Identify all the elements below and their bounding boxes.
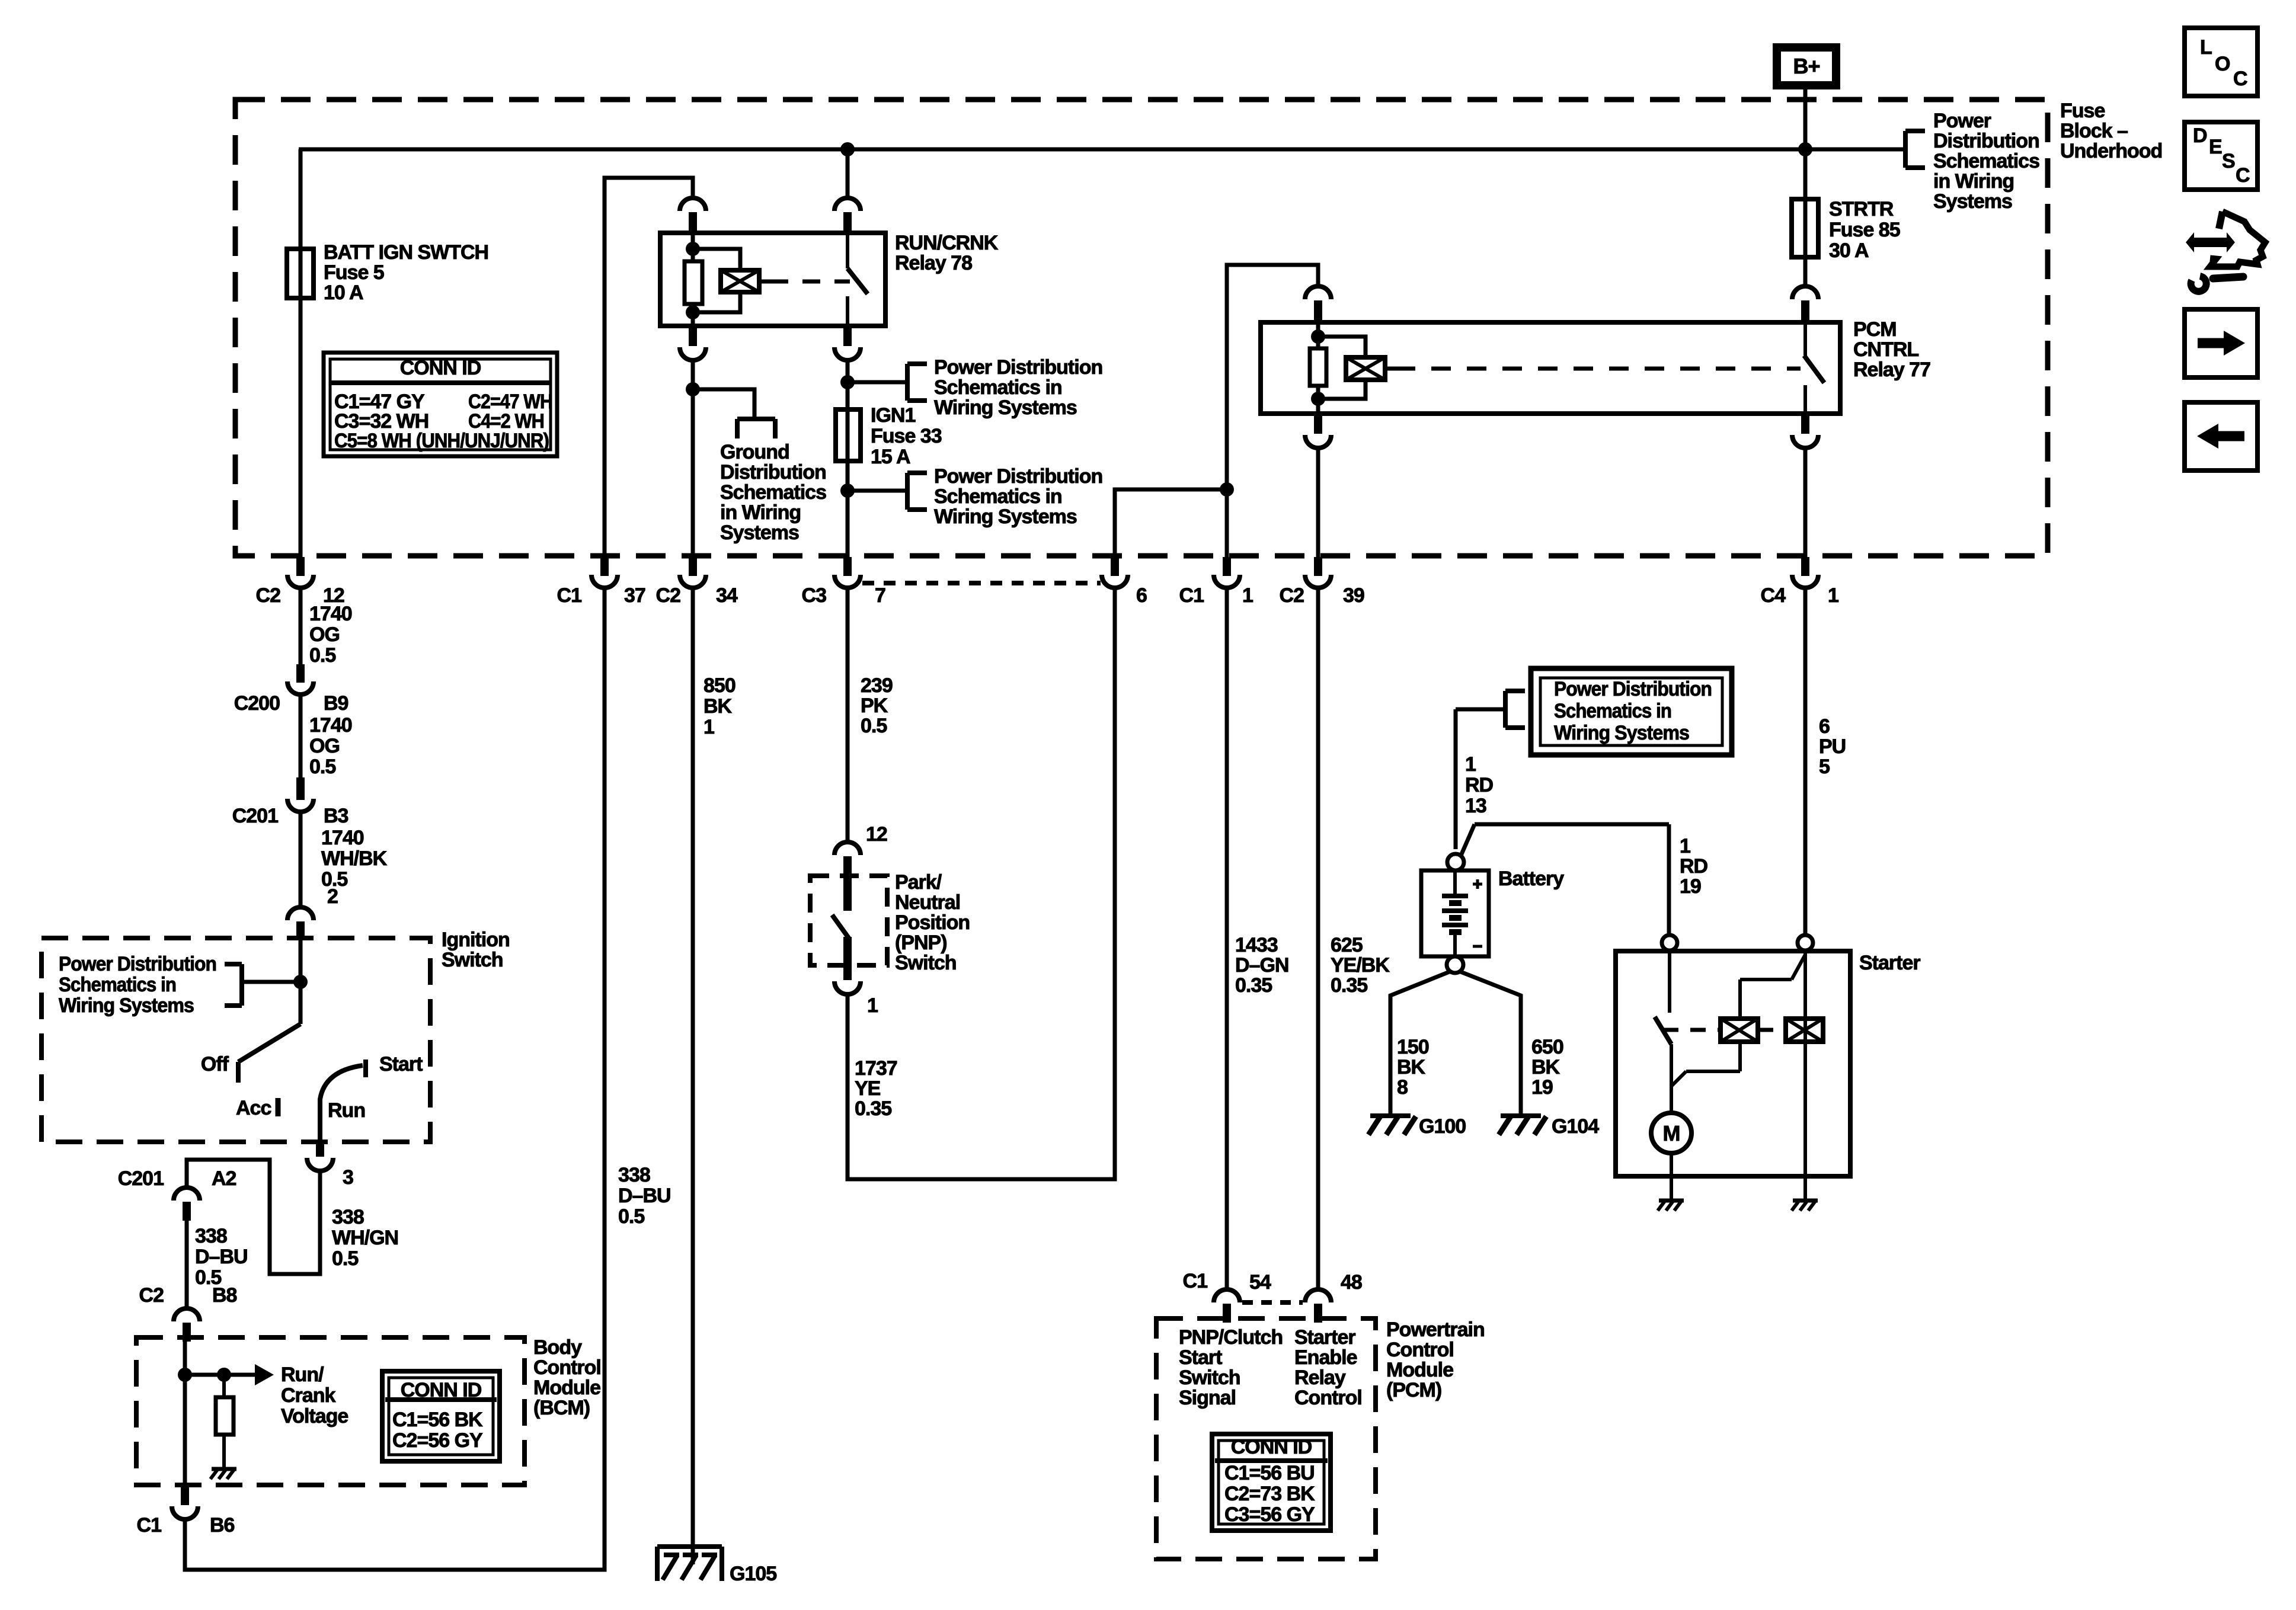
svg-text:30 A: 30 A bbox=[1829, 239, 1869, 262]
wire: B+ to bus and STRTR fuse bbox=[1803, 88, 1808, 286]
svg-text:Switch: Switch bbox=[442, 949, 503, 971]
svg-text:A2: A2 bbox=[212, 1167, 236, 1190]
svg-text:C2: C2 bbox=[1280, 584, 1304, 607]
svg-text:19: 19 bbox=[1680, 875, 1701, 898]
svg-text:M: M bbox=[1663, 1121, 1680, 1145]
svg-text:BK: BK bbox=[1397, 1056, 1426, 1078]
svg-text:C201: C201 bbox=[232, 805, 278, 827]
table CONN ID fuse block bbox=[324, 353, 557, 456]
switch: ignition rotor to Off bbox=[238, 1024, 300, 1083]
svg-text:RUN/CRNK: RUN/CRNK bbox=[895, 232, 999, 254]
icon engine wrench bbox=[2186, 212, 2265, 292]
svg-text:Module: Module bbox=[533, 1377, 600, 1399]
wire: relay 77 coil bottom bbox=[1316, 386, 1320, 412]
svg-text:1740: 1740 bbox=[309, 603, 352, 625]
svg-text:Start: Start bbox=[1179, 1346, 1222, 1369]
svg-text:Fuse 5: Fuse 5 bbox=[324, 261, 384, 284]
svg-text:C1: C1 bbox=[137, 1514, 162, 1537]
labels: fuse block bottom row connectors bbox=[256, 584, 1838, 607]
label Off bbox=[201, 1053, 229, 1076]
wire: battery negative to G100 bbox=[1390, 971, 1451, 1116]
svg-text:D–BU: D–BU bbox=[195, 1246, 248, 1268]
svg-text:650: 650 bbox=[1531, 1036, 1563, 1058]
connector C201 B3 bbox=[232, 777, 348, 827]
svg-text:YE: YE bbox=[855, 1077, 881, 1100]
svg-text:Off: Off bbox=[201, 1053, 229, 1076]
svg-text:338: 338 bbox=[195, 1225, 227, 1247]
svg-text:C201: C201 bbox=[118, 1167, 164, 1190]
label RUN/CRNK Relay 78 bbox=[895, 232, 999, 274]
svg-text:1: 1 bbox=[1680, 835, 1690, 857]
label wire 1737 YE 0.35 bbox=[855, 1057, 897, 1120]
ground: BCM internal bbox=[210, 1469, 236, 1479]
wire: relay 78 switch through IGN1 fuse to C3-7 bbox=[846, 360, 850, 557]
svg-text:D–BU: D–BU bbox=[618, 1185, 671, 1207]
connector cap: PCM C1-54 bbox=[1183, 1270, 1271, 1323]
label BATT IGN SWTCH Fuse 5 10 A bbox=[324, 241, 488, 304]
node: bus / B+ feed bbox=[1798, 142, 1812, 156]
svg-text:PU: PU bbox=[1819, 735, 1846, 758]
svg-text:Power Distribution: Power Distribution bbox=[59, 953, 216, 975]
label wire 1 RD 13 bbox=[1465, 753, 1494, 817]
svg-text:6: 6 bbox=[1136, 584, 1147, 607]
svg-text:0.35: 0.35 bbox=[855, 1097, 891, 1120]
svg-text:C3: C3 bbox=[802, 584, 827, 607]
solenoid: relay 77 coil symbol bbox=[1346, 357, 1396, 380]
wire: BCM internal horizontal bbox=[185, 1373, 255, 1377]
label wire 150 BK 8 bbox=[1397, 1036, 1429, 1099]
wire: C201-A2 to C2-B8 bbox=[185, 1221, 189, 1308]
icon arrow left box bbox=[2185, 402, 2257, 470]
connector cup: relay 77 switch out bbox=[1792, 414, 1818, 448]
solenoid: relay 78 coil symbol bbox=[721, 270, 770, 292]
terminal: battery positive bbox=[1447, 854, 1464, 870]
svg-text:Schematics in: Schematics in bbox=[934, 485, 1062, 508]
svg-text:WH/GN: WH/GN bbox=[332, 1227, 398, 1249]
svg-text:B9: B9 bbox=[324, 692, 348, 715]
relay RUN/CRNK Relay 78 box bbox=[660, 233, 885, 326]
svg-text:Wiring Systems: Wiring Systems bbox=[59, 994, 194, 1017]
svg-text:CONN ID: CONN ID bbox=[401, 1379, 482, 1401]
svg-text:19: 19 bbox=[1531, 1076, 1553, 1099]
svg-text:C: C bbox=[2236, 164, 2250, 187]
connector cup: relay 78 switch out bbox=[834, 326, 861, 360]
svg-text:BK: BK bbox=[703, 695, 733, 718]
svg-text:Fuse: Fuse bbox=[2060, 100, 2105, 122]
node: starter enable branch bbox=[1220, 482, 1234, 497]
connector pins: fuse block bottom row bbox=[287, 557, 1818, 588]
connector cap: relay77 switch input bbox=[1792, 286, 1818, 322]
wire: relay 78 coil bottom bbox=[691, 304, 695, 325]
svg-text:Wiring Systems: Wiring Systems bbox=[1554, 722, 1689, 744]
connector cup: relay 77 coil out bbox=[1305, 414, 1331, 448]
wire: bus to C2-12 through fuse 5 bbox=[299, 149, 303, 557]
ground G104 bbox=[1499, 1116, 1546, 1135]
svg-text:Schematics: Schematics bbox=[720, 481, 826, 504]
svg-text:625: 625 bbox=[1331, 934, 1363, 956]
icon LOC box bbox=[2185, 28, 2257, 96]
fuse STRTR Fuse 85 30A bbox=[1792, 199, 1818, 257]
svg-text:Block –: Block – bbox=[2060, 120, 2128, 142]
svg-text:1: 1 bbox=[703, 716, 714, 738]
svg-text:CONN ID: CONN ID bbox=[400, 357, 481, 379]
mech link: starter dashed bbox=[1663, 1028, 1786, 1032]
svg-text:C2: C2 bbox=[256, 584, 281, 607]
svg-text:338: 338 bbox=[618, 1164, 650, 1186]
ground: starter winding bbox=[1792, 1201, 1818, 1211]
svg-text:Starter: Starter bbox=[1294, 1326, 1355, 1349]
resistor: BCM pull-down bbox=[216, 1375, 234, 1468]
node: relay 77 coil bottom bbox=[1311, 392, 1325, 406]
wire: C1-1 to PCM 54 bbox=[1225, 587, 1229, 1289]
svg-text:0.5: 0.5 bbox=[618, 1205, 644, 1228]
svg-text:Voltage: Voltage bbox=[281, 1405, 348, 1427]
wire: branch to connector 6 bbox=[1115, 489, 1227, 557]
svg-text:0.5: 0.5 bbox=[861, 715, 887, 737]
label G100 bbox=[1419, 1115, 1466, 1138]
label G104 bbox=[1552, 1115, 1599, 1138]
svg-text:Run: Run bbox=[328, 1099, 365, 1122]
wire: tap2 to pointer bbox=[848, 489, 907, 493]
svg-text:Powertrain: Powertrain bbox=[1386, 1318, 1485, 1341]
wire: starter battery feed bbox=[1803, 950, 1807, 1176]
solenoid: starter pull-in winding bbox=[1721, 1019, 1758, 1042]
wire: relay 77 switch to C4-1 bbox=[1803, 448, 1808, 557]
label Starter Enable Relay Control bbox=[1294, 1326, 1362, 1409]
wire: ignition Run to C201-A2 bbox=[187, 1160, 320, 1274]
wire: C2-39 to PCM 48 bbox=[1316, 587, 1320, 1289]
pointer: power distribution (battery) bbox=[1505, 691, 1525, 728]
svg-text:Starter: Starter bbox=[1859, 952, 1920, 974]
svg-text:(PNP): (PNP) bbox=[895, 932, 947, 954]
svg-text:WH/BK: WH/BK bbox=[321, 847, 388, 870]
node: relay 77 coil top bbox=[1311, 329, 1325, 344]
svg-text:C: C bbox=[2233, 68, 2247, 90]
svg-text:Fuse 33: Fuse 33 bbox=[871, 425, 942, 447]
resistor: relay 78 coil bbox=[685, 261, 702, 304]
svg-text:34: 34 bbox=[716, 584, 738, 607]
node: power distribution tap 1 bbox=[840, 375, 855, 389]
wire: starter winding to ground bbox=[1803, 1176, 1807, 1201]
pointer: ground distribution schematics bbox=[737, 419, 775, 438]
switch: starter solenoid contact bbox=[1655, 950, 1671, 1044]
svg-text:1737: 1737 bbox=[855, 1057, 897, 1080]
wire: pointer to battery + bbox=[1454, 709, 1458, 849]
svg-text:CONN ID: CONN ID bbox=[1231, 1436, 1312, 1458]
svg-text:3: 3 bbox=[343, 1166, 353, 1189]
wire: C201 to ignition switch bbox=[299, 812, 303, 908]
pointer: power distribution schematics (top right) bbox=[1905, 131, 1925, 168]
svg-text:239: 239 bbox=[861, 674, 893, 697]
svg-text:Start: Start bbox=[379, 1053, 423, 1076]
svg-text:C1=56 BK: C1=56 BK bbox=[392, 1409, 483, 1431]
label wire 338 D-BU 0.5 (a) bbox=[195, 1225, 248, 1289]
node: bus / RUN CRNK relay 78 bbox=[840, 142, 855, 156]
svg-text:C1=56 BU: C1=56 BU bbox=[1224, 1462, 1315, 1484]
label wire 1 RD 19 bbox=[1680, 835, 1708, 898]
svg-text:C2=73 BK: C2=73 BK bbox=[1224, 1483, 1315, 1505]
svg-text:Control: Control bbox=[1386, 1339, 1454, 1361]
label Ignition Switch bbox=[442, 929, 510, 971]
label power distribution schematics (ignition) bbox=[59, 953, 216, 1017]
label PNP/Clutch Start Switch Signal bbox=[1179, 1326, 1283, 1409]
contact: Acc bbox=[276, 1098, 281, 1116]
svg-text:Power Distribution: Power Distribution bbox=[1554, 678, 1712, 700]
node: BCM tap 1 bbox=[178, 1368, 192, 1382]
svg-text:STRTR: STRTR bbox=[1829, 198, 1894, 220]
connector cap: PNP pin 12 bbox=[834, 823, 887, 877]
svg-text:Ground: Ground bbox=[720, 441, 789, 463]
terminal: starter battery input bbox=[1798, 935, 1813, 950]
svg-text:Park/: Park/ bbox=[895, 871, 942, 894]
connector C1 B6 bbox=[137, 1485, 235, 1537]
svg-text:Power Distribution: Power Distribution bbox=[934, 465, 1102, 488]
svg-text:C1: C1 bbox=[557, 584, 582, 607]
svg-text:PNP/Clutch: PNP/Clutch bbox=[1179, 1326, 1283, 1349]
dotted link: C3 to 6 same connector bbox=[862, 581, 1101, 585]
body control module dashed box bbox=[136, 1337, 525, 1485]
ground: starter motor bbox=[1658, 1201, 1684, 1211]
svg-text:Systems: Systems bbox=[720, 521, 799, 544]
label STRTR Fuse 85 30 A bbox=[1829, 198, 1900, 262]
svg-text:7: 7 bbox=[875, 584, 885, 607]
svg-text:C1: C1 bbox=[1183, 1270, 1208, 1292]
svg-text:Acc: Acc bbox=[236, 1097, 271, 1119]
label wire 1740 WH/BK 0.5 pin 2 bbox=[321, 827, 388, 908]
wire: PNP pin1 to connector 6 bbox=[848, 587, 1115, 1179]
svg-text:Signal: Signal bbox=[1179, 1387, 1236, 1409]
wire: relay 77 solenoid loop bbox=[1318, 337, 1366, 399]
svg-text:1: 1 bbox=[867, 994, 878, 1017]
svg-text:0.35: 0.35 bbox=[1235, 974, 1272, 997]
svg-text:Control: Control bbox=[1294, 1387, 1362, 1409]
ground G100 bbox=[1368, 1116, 1416, 1135]
wire: BCM internal vertical bbox=[183, 1340, 187, 1485]
label wire 338 WH/GN 0.5 bbox=[332, 1206, 398, 1270]
wire: battery + to starter solenoid bbox=[1460, 824, 1669, 934]
mech link: relay 77 dashed bbox=[1396, 367, 1801, 371]
svg-text:B3: B3 bbox=[324, 805, 348, 827]
svg-text:C5=8 WH (UNH/UNJ/UNR): C5=8 WH (UNH/UNJ/UNR) bbox=[334, 430, 549, 452]
svg-text:0.5: 0.5 bbox=[309, 644, 335, 667]
motor M bbox=[1651, 1113, 1691, 1153]
label Run bbox=[328, 1099, 365, 1122]
ignition switch dashed box bbox=[41, 938, 430, 1142]
label power distribution schematics top right bbox=[1933, 110, 2039, 213]
wire: main bus from Fuse 5 to Power Distribution bbox=[299, 148, 1905, 152]
svg-text:Module: Module bbox=[1386, 1359, 1453, 1381]
svg-text:RD: RD bbox=[1465, 774, 1494, 796]
svg-text:C200: C200 bbox=[234, 692, 280, 715]
wire: relay 78 coil to C2-34 bbox=[691, 360, 695, 557]
wire: BCM B6 to C1-37 bbox=[185, 587, 605, 1570]
connector cup: relay 78 coil out bbox=[680, 326, 706, 360]
node: power distribution tap 2 bbox=[840, 484, 855, 498]
wire: ignition feed internal bbox=[299, 939, 303, 1024]
battery box bbox=[1421, 870, 1489, 956]
svg-text:Position: Position bbox=[895, 911, 970, 934]
svg-text:Schematics in: Schematics in bbox=[59, 974, 176, 996]
svg-text:338: 338 bbox=[332, 1206, 364, 1228]
label wire 1740 OG 0.5 (a) bbox=[309, 603, 352, 667]
label ground distribution schematics bbox=[720, 441, 826, 544]
terminal: battery negative bbox=[1447, 956, 1463, 973]
solenoid: starter hold-in winding bbox=[1786, 1019, 1823, 1042]
svg-text:in Wiring: in Wiring bbox=[1933, 170, 2014, 193]
wire: tap1 to pointer bbox=[848, 380, 907, 385]
svg-text:Ignition: Ignition bbox=[442, 929, 510, 951]
node: BCM tap 2 bbox=[217, 1368, 231, 1382]
svg-text:850: 850 bbox=[703, 674, 736, 697]
svg-text:Distribution: Distribution bbox=[1933, 130, 2039, 152]
connector: PNP pin 1 bbox=[834, 965, 878, 1017]
svg-text:IGN1: IGN1 bbox=[871, 404, 915, 427]
svg-text:Enable: Enable bbox=[1294, 1346, 1357, 1369]
svg-text:OG: OG bbox=[309, 735, 340, 757]
svg-text:Power Distribution: Power Distribution bbox=[934, 356, 1102, 379]
resistor: relay 77 coil bbox=[1310, 348, 1326, 386]
label wire 625 YE/BK 0.35 bbox=[1331, 934, 1390, 997]
svg-text:(PCM): (PCM) bbox=[1386, 1379, 1441, 1401]
node: ground distribution tap bbox=[686, 382, 700, 396]
svg-text:39: 39 bbox=[1343, 584, 1364, 607]
svg-text:YE/BK: YE/BK bbox=[1331, 954, 1390, 977]
pointer: power distribution schematics 1 bbox=[907, 364, 927, 401]
pointer: power distribution (ignition) bbox=[225, 964, 242, 1006]
wire: C1-37 up-loop to relay 78 coil bbox=[605, 178, 693, 557]
connector: ignition output pin 3 bbox=[307, 1142, 353, 1189]
svg-text:Schematics in: Schematics in bbox=[934, 376, 1062, 399]
connector cap: relay 78 coil pin bbox=[680, 198, 706, 234]
table CONN ID BCM bbox=[382, 1371, 500, 1461]
svg-text:in Wiring: in Wiring bbox=[720, 501, 801, 524]
pointer: power distribution schematics 2 bbox=[907, 473, 927, 510]
wire: relay 78 coil top bbox=[691, 234, 695, 261]
label Start bbox=[379, 1053, 423, 1076]
switch: relay 77 contact bbox=[1804, 324, 1824, 412]
connector cap: PCM 48 bbox=[1305, 1271, 1362, 1323]
wire: C1-1 up-loop to relay 77 coil bbox=[1227, 265, 1318, 557]
label wire 338 D-BU 0.5 (b) bbox=[618, 1164, 671, 1228]
label Run/Crank Voltage bbox=[281, 1363, 348, 1427]
svg-text:O: O bbox=[2215, 53, 2230, 75]
svg-text:C4=2 WH: C4=2 WH bbox=[468, 410, 544, 433]
svg-text:D–GN: D–GN bbox=[1235, 954, 1288, 977]
svg-text:1740: 1740 bbox=[321, 827, 364, 849]
starter box bbox=[1616, 951, 1850, 1176]
wire: to ground distribution pointer bbox=[693, 389, 754, 419]
connector cap: ignition switch pin 2 bbox=[287, 907, 314, 939]
svg-text:Distribution: Distribution bbox=[720, 461, 826, 484]
svg-text:C2=56 GY: C2=56 GY bbox=[392, 1429, 483, 1452]
label power distribution schematics 1 bbox=[934, 356, 1102, 419]
svg-text:2: 2 bbox=[327, 885, 338, 908]
fuse block underhood dashed box bbox=[235, 100, 2048, 556]
relay PCM CNTRL Relay 77 box bbox=[1261, 322, 1840, 414]
wire: motor to ground bbox=[1670, 1153, 1673, 1201]
svg-text:(BCM): (BCM) bbox=[533, 1397, 590, 1419]
label power distribution schematics 2 bbox=[934, 465, 1102, 528]
box power distribution schematics (battery) bbox=[1531, 668, 1732, 755]
wire: battery negative to G104 bbox=[1459, 971, 1521, 1116]
svg-text:Power: Power bbox=[1933, 110, 1991, 132]
dotted link: PCM C1 connector bbox=[1242, 1300, 1303, 1305]
svg-text:B6: B6 bbox=[210, 1514, 235, 1537]
wire: starter contact to motor bbox=[1670, 1044, 1673, 1113]
svg-text:RD: RD bbox=[1680, 855, 1708, 878]
svg-text:Relay 77: Relay 77 bbox=[1853, 359, 1930, 381]
wire: relay 77 coil to C2-39 bbox=[1316, 448, 1320, 557]
svg-text:D: D bbox=[2193, 124, 2207, 147]
node: relay 78 coil bottom bbox=[686, 305, 700, 319]
svg-text:Switch: Switch bbox=[895, 952, 957, 974]
svg-text:1433: 1433 bbox=[1235, 934, 1278, 956]
label wire 850 BK 1 bbox=[703, 674, 736, 738]
svg-text:1740: 1740 bbox=[309, 714, 352, 737]
svg-text:C2: C2 bbox=[139, 1284, 164, 1307]
svg-text:G100: G100 bbox=[1419, 1115, 1466, 1138]
label Acc bbox=[236, 1097, 271, 1119]
svg-text:C2: C2 bbox=[656, 584, 681, 607]
svg-text:Wiring Systems: Wiring Systems bbox=[934, 396, 1077, 419]
svg-text:Control: Control bbox=[533, 1356, 601, 1379]
connector C201 A2 bbox=[118, 1167, 236, 1221]
svg-text:C3=56 GY: C3=56 GY bbox=[1224, 1503, 1315, 1526]
connector C200 B9 bbox=[234, 664, 348, 715]
wire: relay 77 coil top bbox=[1316, 324, 1320, 348]
svg-text:PCM: PCM bbox=[1853, 318, 1897, 341]
fuse BATT IGN SWTCH Fuse 5 10A bbox=[287, 249, 314, 298]
label wire 6 PU 5 bbox=[1819, 715, 1846, 778]
svg-text:1: 1 bbox=[1828, 584, 1838, 607]
svg-text:G104: G104 bbox=[1552, 1115, 1599, 1138]
svg-text:BK: BK bbox=[1531, 1056, 1560, 1078]
wire: pull-in winding to blade bbox=[1740, 955, 1805, 1019]
svg-text:Wiring Systems: Wiring Systems bbox=[934, 505, 1077, 528]
wire: starter contact branch to coil bbox=[1671, 1042, 1740, 1086]
powertrain control module dashed box bbox=[1156, 1318, 1376, 1559]
label wire 1740 OG 0.5 (b) bbox=[309, 714, 352, 778]
connector cap: relay 77 coil pin bbox=[1305, 286, 1331, 324]
svg-text:Relay 78: Relay 78 bbox=[895, 252, 972, 274]
svg-text:E: E bbox=[2209, 136, 2222, 158]
svg-text:13: 13 bbox=[1465, 795, 1486, 817]
label Body Control Module BCM bbox=[533, 1336, 601, 1419]
svg-text:150: 150 bbox=[1397, 1036, 1429, 1058]
svg-text:C4: C4 bbox=[1761, 584, 1786, 607]
label Park/Neutral Position PNP Switch bbox=[895, 871, 970, 974]
mech link: relay 78 dashed bbox=[770, 280, 850, 284]
svg-text:Fuse 85: Fuse 85 bbox=[1829, 219, 1900, 241]
label Fuse Block - Underhood bbox=[2060, 100, 2162, 162]
svg-text:0.5: 0.5 bbox=[332, 1247, 358, 1270]
svg-text:Underhood: Underhood bbox=[2060, 140, 2162, 162]
svg-text:5: 5 bbox=[1819, 756, 1830, 778]
arrow: Run/Crank Voltage bbox=[255, 1364, 274, 1385]
svg-text:48: 48 bbox=[1341, 1271, 1362, 1294]
wire: C200 to C201 bbox=[299, 694, 303, 777]
svg-text:0.35: 0.35 bbox=[1331, 974, 1367, 997]
svg-text:Schematics in: Schematics in bbox=[1554, 700, 1671, 722]
svg-text:1: 1 bbox=[1242, 584, 1253, 607]
wire: C2-34 to G105 bbox=[691, 587, 695, 1564]
label wire 650 BK 19 bbox=[1531, 1036, 1563, 1099]
svg-text:Body: Body bbox=[533, 1336, 582, 1359]
connector cap: relay 78 switch pin bbox=[834, 198, 861, 234]
svg-text:Schematics: Schematics bbox=[1933, 150, 2039, 172]
battery cells bbox=[1442, 870, 1482, 956]
svg-text:G105: G105 bbox=[730, 1563, 776, 1585]
